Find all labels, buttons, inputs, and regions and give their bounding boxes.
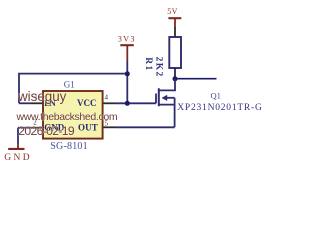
pin name VCC bbox=[77, 98, 97, 108]
source stub bbox=[159, 104, 175, 106]
power 3V3 bbox=[118, 35, 136, 61]
gate bar bbox=[155, 94, 157, 104]
svg-text:Q1: Q1 bbox=[211, 91, 221, 101]
channel bar bbox=[158, 88, 160, 106]
svg-text:5V: 5V bbox=[167, 7, 177, 16]
wire EN pin net bbox=[19, 102, 31, 104]
svg-text:wiseguy: wiseguy bbox=[17, 89, 67, 104]
body arrow bbox=[162, 95, 167, 100]
ground symbol bbox=[4, 144, 32, 164]
svg-text:2026-02-19: 2026-02-19 bbox=[18, 124, 75, 138]
power 5V bbox=[167, 7, 181, 27]
wire 5V to resistor bbox=[174, 27, 176, 37]
pin number 1 bbox=[34, 94, 38, 102]
resistor R1 body bbox=[169, 37, 181, 68]
svg-text:3V3: 3V3 bbox=[118, 35, 136, 44]
svg-text:VCC: VCC bbox=[77, 98, 97, 108]
pin 1 lead EN bbox=[31, 102, 44, 104]
pin 2 lead GND bbox=[31, 127, 44, 129]
svg-text:G1: G1 bbox=[64, 80, 75, 90]
svg-text:XP231N0201TR-G: XP231N0201TR-G bbox=[177, 103, 262, 113]
svg-text:2K2: 2K2 bbox=[153, 57, 163, 78]
svg-text:SG-8101: SG-8101 bbox=[50, 141, 88, 152]
drain stub bbox=[159, 79, 175, 90]
wire OUT to source bbox=[116, 126, 175, 128]
label R1 designator (rotated) bbox=[143, 57, 153, 71]
transistor Q1 MOSFET symbol bbox=[156, 79, 175, 127]
watermark line 2 www.thebackshed.com bbox=[16, 111, 118, 123]
pin name GND bbox=[44, 123, 65, 133]
svg-text:R1: R1 bbox=[143, 57, 153, 71]
node junction dot rail/3V3 bbox=[125, 71, 130, 76]
watermark line 1 wiseguy bbox=[17, 89, 67, 104]
wire 3V3 stem down to VCC node bbox=[126, 61, 128, 103]
label SG-8101 part bbox=[50, 141, 88, 152]
wire VCC to gate bbox=[116, 102, 157, 104]
label G1 designator bbox=[64, 80, 75, 90]
pin number 2 bbox=[33, 119, 37, 127]
pin name OUT bbox=[78, 123, 98, 133]
wire resistor to drain node bbox=[174, 68, 176, 79]
watermark line 3 date bbox=[18, 124, 75, 138]
label XP231N0201TR-G part number bbox=[177, 103, 262, 113]
pin 5 lead OUT bbox=[103, 126, 116, 128]
pin number 4 bbox=[104, 94, 108, 102]
source vertical bbox=[174, 98, 176, 127]
IC G1 body bbox=[43, 91, 103, 139]
svg-text:GND: GND bbox=[4, 153, 32, 163]
svg-text:www.thebackshed.com: www.thebackshed.com bbox=[16, 111, 118, 123]
svg-text:OUT: OUT bbox=[78, 123, 98, 133]
label Q1 designator bbox=[211, 91, 221, 101]
svg-text:4: 4 bbox=[104, 94, 108, 102]
label 2K2 value (rotated) bbox=[153, 57, 163, 78]
node junction dot VCC/3V3/gate bbox=[125, 101, 130, 106]
pin 4 lead VCC bbox=[103, 102, 116, 104]
node junction dot drain node bbox=[173, 76, 178, 81]
wire GND pin to ground bbox=[18, 128, 31, 144]
wire top rail EN to 3V3 bbox=[19, 74, 127, 104]
wire drain node to right bbox=[177, 78, 217, 80]
pin number 5 bbox=[104, 119, 108, 127]
pin name EN bbox=[44, 98, 56, 108]
